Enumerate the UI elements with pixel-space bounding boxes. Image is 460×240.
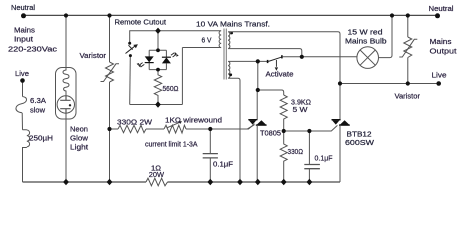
led D2 cathode bar xyxy=(162,56,171,58)
resistor R2 330ohm 2W xyxy=(118,125,146,132)
wire activate node to bulb xyxy=(283,56,357,58)
junction rail gate column xyxy=(237,179,243,185)
svg-text:250µH: 250µH xyxy=(29,134,53,143)
wire primary lower bottom to gate column xyxy=(228,78,240,182)
junction rail varistor bottom xyxy=(107,179,113,185)
wire inductor to bottom rail xyxy=(22,147,24,182)
svg-text:1KΩ wirewound: 1KΩ wirewound xyxy=(165,115,222,124)
wire neon branch top xyxy=(65,16,67,68)
wire primary top to bulb column xyxy=(228,32,340,120)
resistor R5 1ohm 20W on bottom rail xyxy=(146,178,168,186)
switch S2 activate right contact xyxy=(281,55,283,58)
switch S1 remote cutout upper lead xyxy=(129,34,131,43)
junction rail t0805 xyxy=(255,179,261,185)
capacitor C2 0.1uF top lead xyxy=(308,131,310,164)
svg-text:Input: Input xyxy=(14,35,34,44)
junction varistor right bottom xyxy=(406,81,410,85)
capacitor C1 0.1uF top lead xyxy=(209,129,211,153)
wire live output row xyxy=(340,83,439,85)
junction lamp rail xyxy=(390,13,394,17)
wire primary upper bottom to activate node xyxy=(228,49,302,57)
wire live input drop xyxy=(22,81,24,97)
terminal live output xyxy=(436,81,441,86)
transformer TR1 primary winding lower bumps xyxy=(228,61,230,78)
junction activate right xyxy=(300,55,304,59)
junction neon top xyxy=(64,13,68,17)
fuse F1 6.3A slow xyxy=(16,97,27,113)
svg-text:slow: slow xyxy=(30,106,45,115)
wire cap node to T0805 gate xyxy=(210,124,254,129)
switch S1 lower lead xyxy=(129,56,132,105)
wire primary lower top to junction xyxy=(228,60,268,62)
junction rail neon bottom xyxy=(63,179,69,185)
resistor R4 330ohm gate xyxy=(280,131,287,182)
svg-text:Live: Live xyxy=(432,71,447,80)
junction activate left xyxy=(256,59,260,63)
svg-text:Remote Cutout: Remote Cutout xyxy=(115,18,167,27)
led D1 left leg xyxy=(148,50,150,69)
transformer TR1 secondary winding left bumps xyxy=(219,31,221,48)
svg-text:Varistor: Varistor xyxy=(395,92,421,101)
led D1 triangle xyxy=(145,56,154,62)
wire 330ohm row start xyxy=(110,128,119,130)
svg-text:15 W red: 15 W red xyxy=(348,28,383,37)
junction cap2 top xyxy=(307,129,311,133)
svg-text:Mains: Mains xyxy=(430,37,452,46)
resistor R1 560ohm xyxy=(154,70,161,105)
terminal live input xyxy=(20,78,25,83)
wire right varistor top xyxy=(407,16,409,38)
junction live output left xyxy=(338,81,342,85)
triac T0805 main column lower xyxy=(256,125,258,182)
capacitor C2 bottom lead xyxy=(308,169,310,182)
led bridge top bar xyxy=(149,49,166,51)
svg-text:5 W: 5 W xyxy=(293,105,309,114)
svg-text:Activate: Activate xyxy=(266,70,294,79)
wire live bottom rail right segment xyxy=(168,181,341,183)
terminal neutral input xyxy=(21,13,26,18)
terminal neutral output xyxy=(435,13,440,18)
svg-text:Neutral: Neutral xyxy=(11,3,35,12)
wire lamp right to neutral rail xyxy=(379,16,393,58)
svg-text:600SW: 600SW xyxy=(345,138,375,147)
junction rail 330 gate xyxy=(281,179,287,185)
capacitor C1 bottom lead xyxy=(209,158,211,182)
junction varistor left top xyxy=(107,13,111,17)
resistor P1 1K wirewound xyxy=(164,125,186,133)
led D1 emission arrows xyxy=(139,63,144,67)
svg-text:Neutral: Neutral xyxy=(429,4,454,13)
varistor RV2 strike line xyxy=(399,39,417,57)
wire right varistor bottom xyxy=(407,58,409,84)
rheostat arrow over 1K xyxy=(167,122,182,128)
junction cap1 top xyxy=(208,127,212,131)
switch S1 arm with arrow xyxy=(126,45,136,53)
junction rail cap1 xyxy=(207,179,213,185)
triac T2 main lead lower xyxy=(339,125,341,182)
lamp LA1 circle xyxy=(357,47,379,69)
wire junction to 3.9K top xyxy=(258,90,284,95)
varistor RV1 strike line xyxy=(101,64,120,82)
junction bridge top xyxy=(156,48,160,52)
switch S2 activate left contact xyxy=(267,60,269,63)
svg-text:BTB12: BTB12 xyxy=(347,129,372,138)
junction snubber left xyxy=(282,129,286,133)
svg-text:330Ω 2W: 330Ω 2W xyxy=(117,117,153,126)
wire left varistor top xyxy=(109,16,111,63)
led bridge bottom bar xyxy=(149,69,166,71)
triac T0805 main column upper xyxy=(256,90,258,120)
svg-text:Glow: Glow xyxy=(70,134,89,143)
svg-text:Light: Light xyxy=(70,143,89,152)
triac T2 BTB12 symbol xyxy=(332,120,350,125)
junction 560 bottom xyxy=(155,101,161,107)
triac T0805 gate lead xyxy=(247,125,254,129)
svg-text:220-230Vac: 220-230Vac xyxy=(8,45,57,54)
transformer TR1 primary phase dot upper xyxy=(230,32,233,35)
inductor L1 250uH xyxy=(23,130,30,148)
junction varistor left bottom xyxy=(107,127,111,131)
lamp LA1 cross xyxy=(360,50,375,65)
svg-text:6 V: 6 V xyxy=(202,36,213,45)
led D2 right leg xyxy=(165,50,167,69)
svg-text:0.1μF: 0.1μF xyxy=(213,159,233,168)
wire 1K to cap node xyxy=(186,128,210,130)
svg-text:10 VA Mains Transf.: 10 VA Mains Transf. xyxy=(196,19,270,28)
svg-text:6.3A: 6.3A xyxy=(30,96,47,105)
wire remote cutout bottom line xyxy=(130,104,183,106)
svg-text:560Ω: 560Ω xyxy=(163,84,179,93)
junction t0805 top xyxy=(256,88,260,92)
junction rail cap2 xyxy=(307,179,313,185)
wire remote cutout return riser xyxy=(181,48,183,105)
wire live bottom rail left segment xyxy=(23,181,147,183)
led D2 triangle xyxy=(162,57,171,63)
junction remote cutout top xyxy=(155,28,161,34)
resistor inside neon capsule xyxy=(63,68,69,96)
wire fuse to inductor xyxy=(21,113,23,130)
svg-text:Mains: Mains xyxy=(14,26,35,35)
varistor RV2 zigzag xyxy=(404,37,412,58)
capacitor C2 plates xyxy=(304,165,320,169)
wire neutral top rail xyxy=(23,14,438,16)
wire riser to transformer secondary bottom xyxy=(182,47,221,49)
junction bridge bottom xyxy=(156,68,160,72)
junction varistor right top xyxy=(406,13,410,17)
neon lamp N1 xyxy=(57,96,74,114)
svg-text:0.1μF: 0.1μF xyxy=(315,153,333,162)
wire remote cutout top line xyxy=(130,31,221,34)
wire bridge drop from top line xyxy=(157,31,159,51)
triac T0805 symbol xyxy=(248,120,266,125)
svg-text:Neon: Neon xyxy=(70,125,88,134)
switch S2 activate arm xyxy=(269,57,282,61)
capacitor C1 plates xyxy=(203,154,218,158)
contact switch S1 lower xyxy=(129,54,132,57)
wire activate junction drop xyxy=(257,61,259,90)
wire between 330ohm and 1K xyxy=(146,128,164,130)
wire neon to bottom rail xyxy=(65,113,67,182)
svg-text:Output: Output xyxy=(430,47,458,56)
svg-text:T0805: T0805 xyxy=(260,129,281,138)
resistor R3 3.9K 5W xyxy=(280,95,287,131)
wire gate snubber line xyxy=(284,125,338,131)
contact switch S1 upper xyxy=(128,42,131,45)
neon glow light capsule outline xyxy=(56,68,77,120)
led D1 cathode bar xyxy=(145,62,154,64)
switch S2 activate stem and arrow xyxy=(275,60,277,67)
svg-text:current limit 1-3A: current limit 1-3A xyxy=(145,141,198,148)
wire left varistor bottom xyxy=(109,82,111,182)
svg-text:20W: 20W xyxy=(149,170,165,179)
svg-text:330Ω: 330Ω xyxy=(288,147,304,156)
svg-text:Varistor: Varistor xyxy=(80,51,107,60)
svg-text:Mains Bulb: Mains Bulb xyxy=(345,36,387,45)
transformer TR1 primary phase dot lower xyxy=(229,73,232,76)
transformer TR1 primary winding upper bumps xyxy=(228,32,230,49)
led D2 emission arrows xyxy=(171,53,176,57)
transformer TR1 core lines xyxy=(224,29,226,80)
svg-text:Live: Live xyxy=(15,69,29,78)
varistor RV1 zigzag xyxy=(106,62,114,82)
